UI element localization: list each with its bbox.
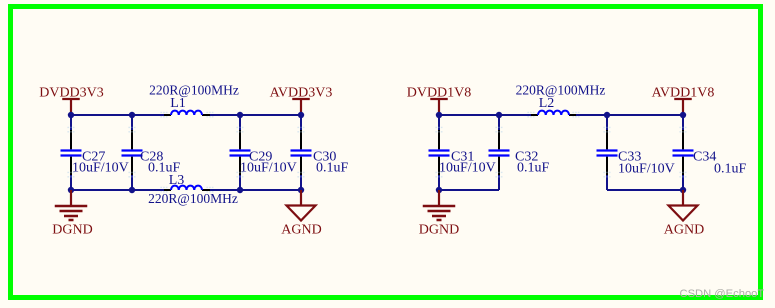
svg-text:10uF/10V: 10uF/10V	[240, 161, 297, 176]
wire bottom rail left: L3 right to C30	[210, 189, 301, 191]
junction C33 top	[604, 112, 610, 118]
wire C32 column	[498, 115, 500, 190]
svg-text:220R@100MHz: 220R@100MHz	[148, 191, 238, 206]
junction AVDD1V8/C34 top	[680, 112, 686, 118]
svg-text:0.1uF: 0.1uF	[148, 161, 181, 176]
power port AVDD1V8	[652, 86, 715, 116]
svg-text:AGND: AGND	[664, 223, 704, 238]
ground AGND right (triangle symbol)	[664, 190, 704, 238]
power port AVDD3V3	[270, 86, 333, 116]
junction C28 top	[129, 112, 135, 118]
wire C30 column	[300, 115, 302, 190]
wire C28 column	[131, 115, 133, 190]
wire top rail left: DVDD3V3 node to L1 left	[71, 114, 164, 116]
ferrite bead L2 220R@100MHz	[516, 83, 606, 117]
junction C27 bottom / DGND	[68, 187, 74, 193]
junction C28 bottom	[129, 187, 135, 193]
wire top rail right: DVDD1V8 node to L2 left	[439, 114, 531, 116]
ground AGND left (triangle symbol)	[281, 190, 321, 238]
svg-text:10uF/10V: 10uF/10V	[72, 161, 129, 176]
ferrite bead L1 220R@100MHz	[149, 83, 239, 117]
ground DGND left (earth symbol)	[52, 190, 92, 238]
svg-text:L2: L2	[539, 96, 555, 111]
wire top rail right: L2 right to AVDD1V8 node	[576, 114, 683, 116]
wire bottom rail left: C27 to L3 left	[71, 189, 164, 191]
capacitor C32 0.1uF	[489, 127, 550, 176]
svg-text:C34: C34	[693, 150, 716, 165]
svg-text:L1: L1	[170, 96, 186, 111]
svg-text:CSDN @EchooT: CSDN @EchooT	[680, 288, 765, 300]
capacitor C27 10uF/10V	[61, 127, 129, 176]
svg-text:0.1uF: 0.1uF	[316, 161, 349, 176]
svg-text:DGND: DGND	[52, 223, 92, 238]
ground DGND right (earth symbol)	[419, 190, 459, 238]
svg-text:0.1uF: 0.1uF	[517, 161, 550, 176]
junction C29 top	[237, 112, 243, 118]
wire top rail left: L1 right to AVDD3V3 node	[210, 114, 301, 116]
capacitor C33 10uF/10V	[597, 127, 675, 176]
svg-text:10uF/10V: 10uF/10V	[618, 162, 675, 177]
junction C29 bottom	[237, 187, 243, 193]
wire C27 column	[70, 115, 72, 190]
wire C29 column	[239, 115, 241, 190]
svg-text:DGND: DGND	[419, 223, 459, 238]
capacitor C28 0.1uF	[122, 127, 181, 176]
junction DVDD1V8/C31 top	[436, 112, 442, 118]
wire bottom right: C31 to C32	[439, 189, 499, 191]
svg-text:0.1uF: 0.1uF	[714, 162, 747, 177]
power port DVDD1V8	[407, 86, 472, 116]
wire bottom right: C33 to C34	[607, 189, 683, 191]
svg-text:AGND: AGND	[281, 223, 321, 238]
capacitor C29 10uF/10V	[230, 127, 297, 176]
junction C31 bottom / DGND	[436, 187, 442, 193]
junction C34 bottom / AGND	[680, 187, 686, 193]
junction AVDD3V3/C30 top	[298, 112, 304, 118]
svg-text:220R@100MHz: 220R@100MHz	[516, 83, 606, 98]
junction C30 bottom / AGND	[298, 187, 304, 193]
junction C32 top	[496, 112, 502, 118]
ferrite bead L3 220R@100MHz	[148, 173, 238, 206]
wire C34 column	[682, 115, 684, 190]
svg-text:10uF/10V: 10uF/10V	[439, 161, 496, 176]
capacitor C30 0.1uF	[291, 127, 349, 176]
svg-text:220R@100MHz: 220R@100MHz	[149, 83, 239, 98]
junction DVDD3V3/C27 top	[68, 112, 74, 118]
power port DVDD3V3	[39, 86, 104, 116]
capacitor C31 10uF/10V	[429, 127, 496, 176]
wire C33 column	[606, 115, 608, 190]
wire C31 column	[438, 115, 440, 190]
capacitor C34 0.1uF	[673, 127, 747, 176]
